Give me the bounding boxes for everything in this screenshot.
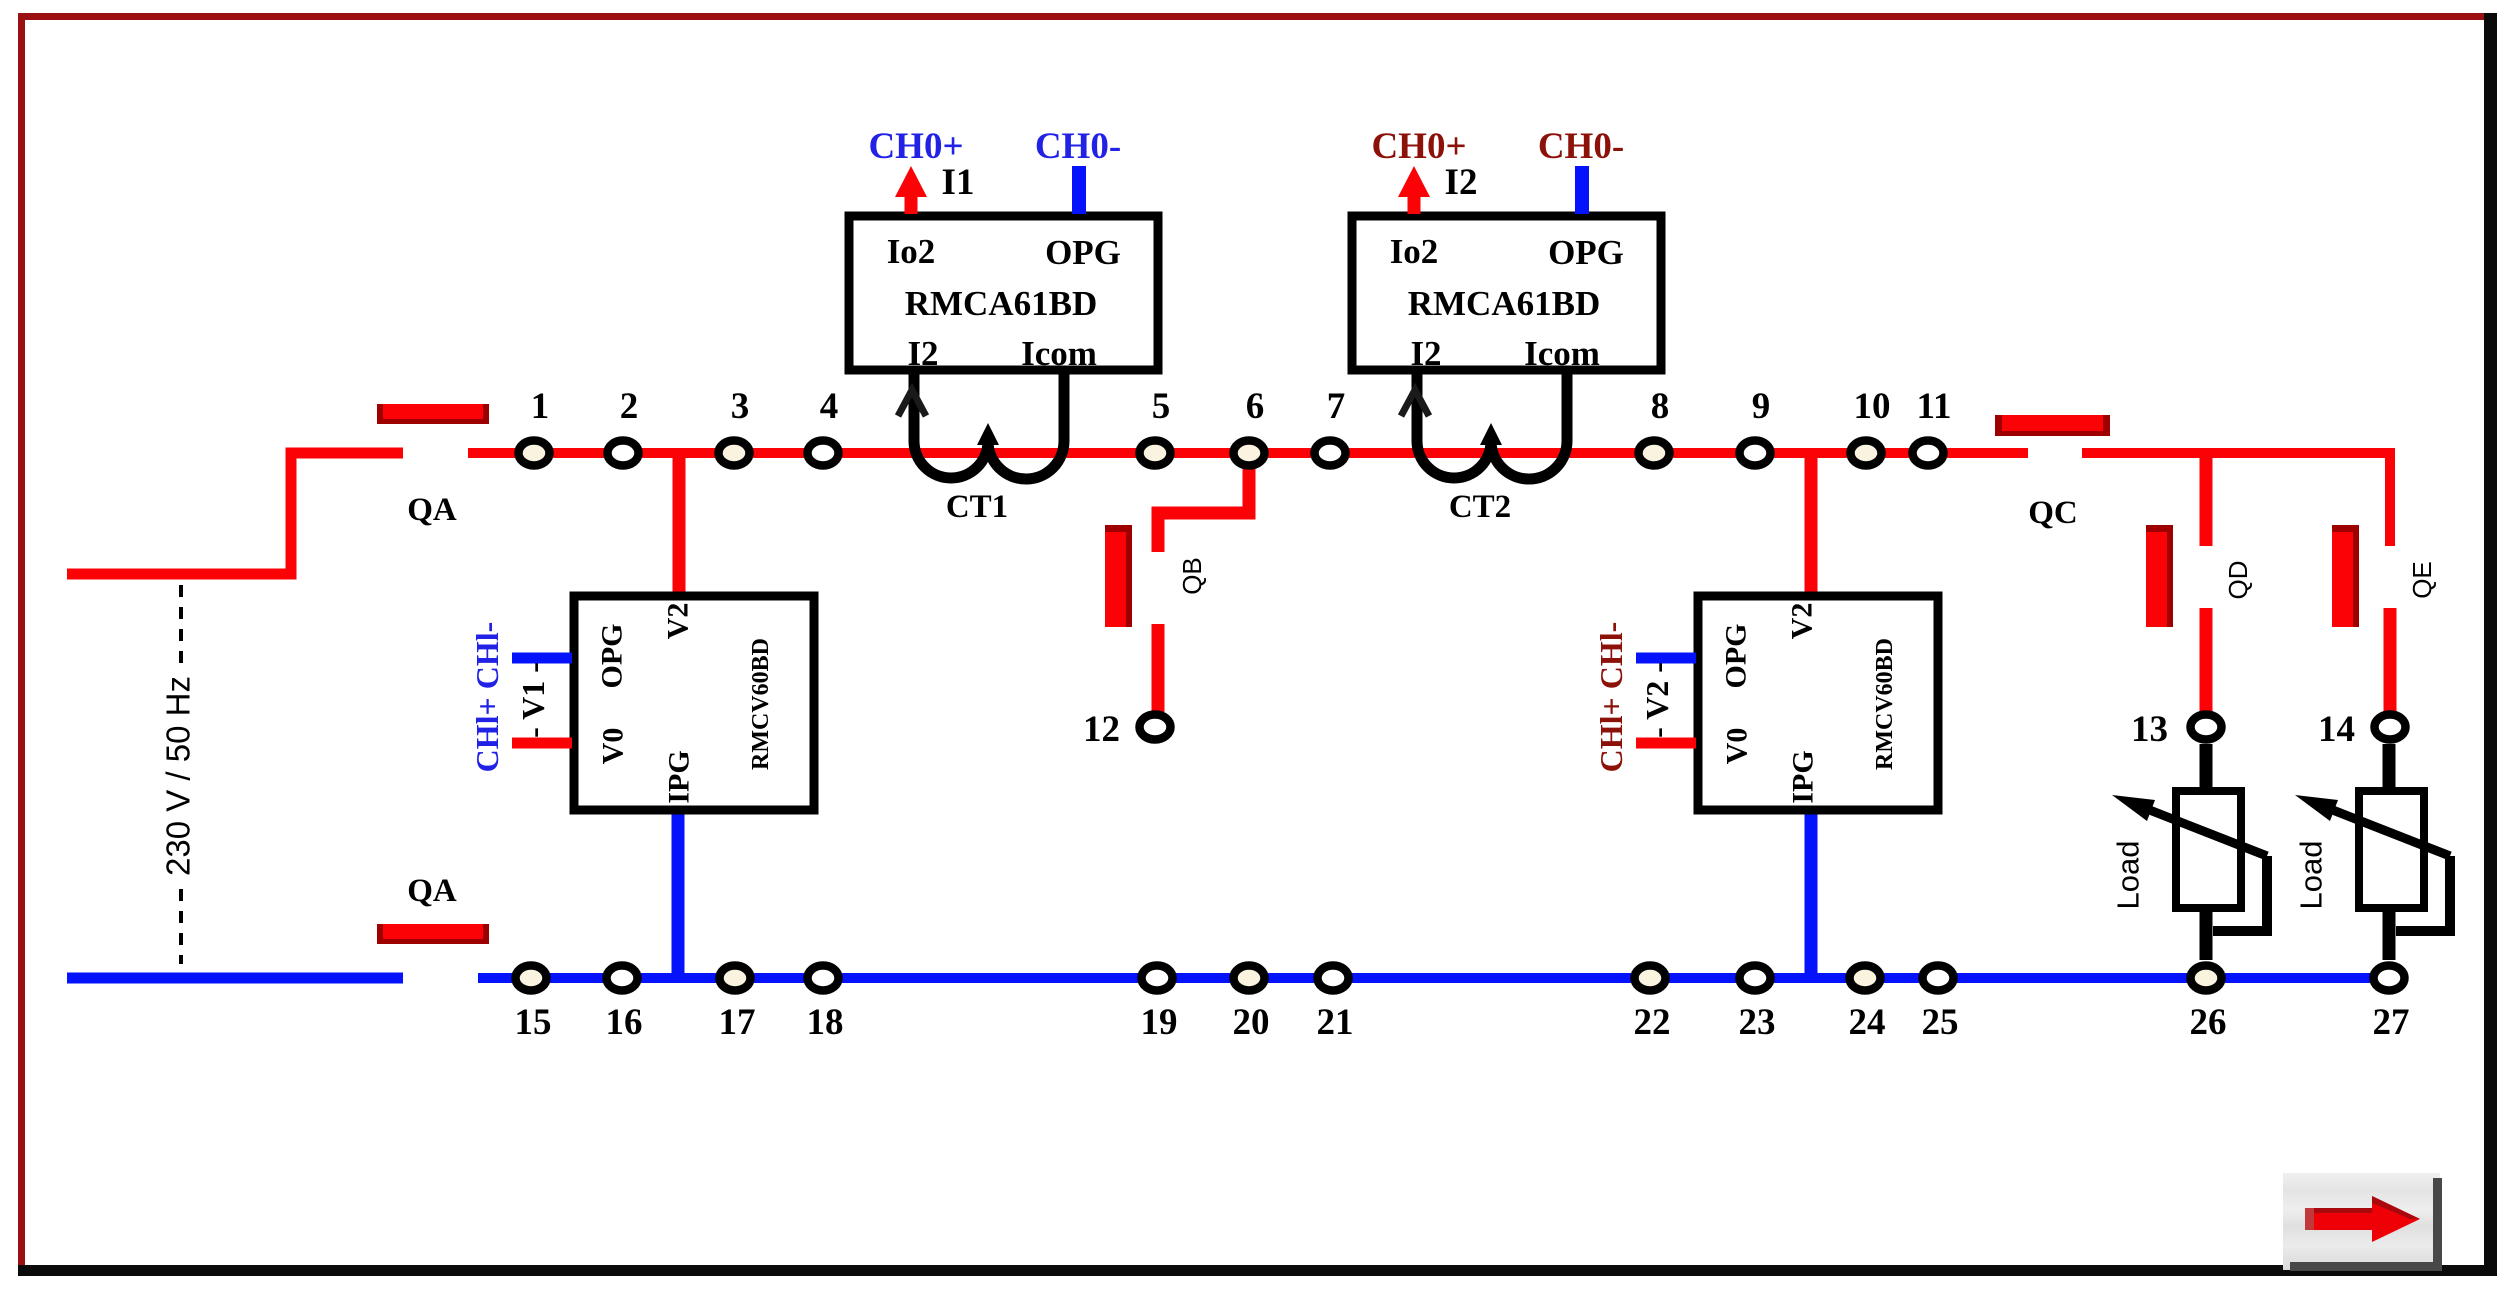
svg-text:Io2: Io2 (887, 232, 936, 271)
svg-text:QC: QC (2028, 495, 2078, 531)
label node 19 (1141, 1002, 1178, 1043)
wire QD to node13 (2200, 608, 2213, 712)
label QA lower (407, 873, 457, 909)
svg-text:14: 14 (2318, 709, 2355, 750)
svg-text:CT2: CT2 (1449, 489, 1511, 525)
node 15 (516, 966, 547, 991)
label RMCA61BD (1408, 284, 1600, 323)
wire branch node3 to U3 V2 pin (673, 453, 686, 592)
svg-text:5: 5 (1152, 386, 1171, 427)
node source dashed lead (179, 585, 183, 964)
wire red output arrow pin Io2 of CT2 (1398, 166, 1430, 214)
switch QD bar (2146, 525, 2173, 627)
svg-text:OPG: OPG (1045, 233, 1121, 272)
label CH0- of CT1 (1035, 126, 1121, 167)
label node 3 (731, 386, 750, 427)
svg-text:V0: V0 (1721, 728, 1754, 765)
svg-text:V2: V2 (662, 603, 695, 640)
svg-text:QD: QD (2223, 561, 2253, 600)
svg-text:CT1: CT1 (946, 489, 1008, 525)
label 230 V / 50 Hz (160, 676, 197, 876)
pin label Io2 (1390, 232, 1439, 271)
label CHI+ CHI- of U4 (1593, 622, 1629, 773)
wire red pin Vo of U3 (512, 738, 572, 749)
svg-text:I2: I2 (907, 334, 938, 373)
node 8 (1639, 441, 1670, 466)
pin label IPG of U4 (1787, 750, 1820, 803)
label V2 (1639, 662, 1675, 738)
svg-text:CHl+ CHl-: CHl+ CHl- (469, 622, 505, 773)
svg-text:3: 3 (731, 386, 750, 427)
border frame bottom (18, 1265, 2497, 1276)
node 3 (719, 441, 750, 466)
node 9 (1740, 441, 1771, 466)
label QE (2407, 561, 2437, 599)
svg-text:8: 8 (1651, 386, 1670, 427)
svg-text:11: 11 (1917, 386, 1952, 427)
node 12 (1140, 715, 1171, 740)
node 23 (1740, 966, 1771, 991)
label node 21 (1317, 1002, 1354, 1043)
switch QE bar (2332, 525, 2359, 627)
label node 4 (820, 386, 839, 427)
label CH0+ of CT2 (1371, 126, 1466, 167)
wire phase rail left segment (468, 448, 2028, 458)
svg-text:Icom: Icom (1524, 334, 1600, 373)
svg-text:RMCV60BD: RMCV60BD (1872, 638, 1898, 770)
svg-text:Io2: Io2 (1390, 232, 1439, 271)
label node 20 (1233, 1002, 1270, 1043)
svg-text:6: 6 (1246, 386, 1265, 427)
next button arrow (2305, 1196, 2420, 1242)
svg-text:21: 21 (1317, 1002, 1354, 1043)
svg-text:15: 15 (515, 1002, 552, 1043)
svg-text:CH0+: CH0+ (1371, 126, 1466, 167)
switch QA lower bar (377, 924, 489, 944)
pin label Icom (1021, 334, 1097, 373)
svg-text:I1: I1 (942, 162, 975, 203)
svg-text:RMCA61BD: RMCA61BD (905, 284, 1097, 323)
svg-text:18: 18 (807, 1002, 844, 1043)
node 18 (808, 966, 839, 991)
svg-text:24: 24 (1849, 1002, 1886, 1043)
label node 23 (1739, 1002, 1776, 1043)
node 4 (808, 441, 839, 466)
svg-text:QB: QB (1177, 557, 1207, 595)
load L2 top lead (2383, 744, 2396, 790)
pin label I2 (907, 334, 938, 373)
svg-text:IPG: IPG (1787, 750, 1820, 803)
border frame right (2484, 13, 2497, 1276)
node 20 (1234, 966, 1265, 991)
wire phase source feed (67, 453, 403, 574)
svg-text:CHl+ CHl-: CHl+ CHl- (1593, 622, 1629, 773)
label node 16 (606, 1002, 643, 1043)
label Load 1 (2111, 841, 2146, 910)
svg-text:22: 22 (1634, 1002, 1671, 1043)
current transformer CT2 coil (1417, 374, 1567, 479)
label node 13 (2131, 709, 2168, 750)
svg-text:23: 23 (1739, 1002, 1776, 1043)
svg-text:OPG: OPG (1720, 624, 1753, 689)
pin label I2 (1410, 334, 1441, 373)
variable arrow of Load 2 (2295, 795, 2450, 931)
svg-text:V2: V2 (1786, 603, 1819, 640)
svg-text:- V2 -: - V2 - (1639, 662, 1675, 738)
label I2 (1445, 162, 1478, 203)
node 10 (1851, 441, 1882, 466)
label QD (2223, 561, 2253, 600)
svg-text:7: 7 (1327, 386, 1346, 427)
node 21 (1318, 966, 1349, 991)
node 5 (1140, 441, 1171, 466)
load L2 bottom lead (2383, 908, 2396, 960)
svg-text:19: 19 (1141, 1002, 1178, 1043)
label QA upper (407, 492, 457, 528)
border frame top (18, 13, 2497, 20)
label CHI+ CHI- of U3 (469, 622, 505, 773)
svg-text:Load: Load (2294, 841, 2329, 910)
svg-text:CH0-: CH0- (1035, 126, 1121, 167)
label V1 (515, 662, 551, 738)
svg-text:QA: QA (407, 873, 457, 909)
wire blue pin OPG of U3 (512, 653, 572, 664)
label node 12 (1083, 709, 1120, 750)
wire branch to QD (2200, 453, 2213, 546)
svg-text:I2: I2 (1410, 334, 1441, 373)
svg-text:OPG: OPG (1548, 233, 1624, 272)
svg-text:IPG: IPG (663, 750, 696, 803)
op-amp module U2 RMCA61BD box (1352, 216, 1661, 370)
label node 2 (620, 386, 639, 427)
svg-text:Load: Load (2111, 841, 2146, 910)
node 16 (607, 966, 638, 991)
svg-text:20: 20 (1233, 1002, 1270, 1043)
label node 5 (1152, 386, 1171, 427)
switch QC bar (1995, 415, 2110, 436)
node 22 (1635, 966, 1666, 991)
wire red pin Vo of U4 (1636, 738, 1696, 749)
node 14 (2375, 715, 2406, 740)
label node 11 (1917, 386, 1952, 427)
wire neutral source feed (67, 973, 403, 984)
label node 26 (2190, 1002, 2227, 1043)
label CT1 (946, 489, 1008, 525)
pin label OPG of U4 (1720, 624, 1753, 689)
resistor Load 2 body (2359, 791, 2424, 908)
current transformer CT1 coil (914, 374, 1064, 479)
switch QB bar (1105, 525, 1132, 627)
voltage module U3 RMCV60BD box (574, 596, 814, 810)
label I1 (942, 162, 975, 203)
wire branch node6 to QB (1158, 453, 1249, 552)
svg-text:V0: V0 (597, 728, 630, 765)
svg-text:QA: QA (407, 492, 457, 528)
label CH0+ of CT1 (868, 126, 963, 167)
svg-text:9: 9 (1752, 386, 1771, 427)
node 27 (2374, 966, 2405, 991)
pin label V2 of U4 (1786, 603, 1819, 640)
svg-text:CH0-: CH0- (1538, 126, 1624, 167)
svg-text:10: 10 (1854, 386, 1891, 427)
wire phase rail right segment (2082, 453, 2390, 546)
next button (2283, 1173, 2442, 1271)
svg-text:- V1 -: - V1 - (515, 662, 551, 738)
label QC (2028, 495, 2078, 531)
variable arrow of Load 1 (2112, 795, 2267, 931)
label QB (1177, 557, 1207, 595)
label node 17 (719, 1002, 756, 1043)
svg-text:16: 16 (606, 1002, 643, 1043)
svg-text:RMCV60BD: RMCV60BD (748, 638, 774, 770)
svg-text:1: 1 (531, 386, 550, 427)
node 17 (720, 966, 751, 991)
label node 10 (1854, 386, 1891, 427)
label node 8 (1651, 386, 1670, 427)
label node 22 (1634, 1002, 1671, 1043)
node 13 (2191, 715, 2222, 740)
label node 15 (515, 1002, 552, 1043)
label node 18 (807, 1002, 844, 1043)
current direction arrow at CT2 (1401, 390, 1429, 416)
pin label Icom (1524, 334, 1600, 373)
label node 9 (1752, 386, 1771, 427)
wire blue pin OPG of CT2 (1575, 166, 1589, 214)
node 26 (2191, 966, 2222, 991)
svg-text:25: 25 (1922, 1002, 1959, 1043)
wire blue pin OPG of CT1 (1072, 166, 1086, 214)
svg-text:Icom: Icom (1021, 334, 1097, 373)
svg-text:12: 12 (1083, 709, 1120, 750)
label node 1 (531, 386, 550, 427)
svg-text:27: 27 (2373, 1002, 2410, 1043)
svg-text:4: 4 (820, 386, 839, 427)
svg-text:RMCA61BD: RMCA61BD (1408, 284, 1600, 323)
label node 25 (1922, 1002, 1959, 1043)
label node 14 (2318, 709, 2355, 750)
svg-text:13: 13 (2131, 709, 2168, 750)
resistor Load 1 body (2176, 791, 2241, 908)
pin label V2 of U3 (662, 603, 695, 640)
wire red output arrow pin Io2 of CT1 (895, 166, 927, 214)
pin label V0 of U3 (597, 728, 630, 765)
pin label OPG of U3 (596, 624, 629, 689)
node 7 (1315, 441, 1346, 466)
svg-text:OPG: OPG (596, 624, 629, 689)
border frame left (18, 13, 25, 1276)
op-amp module U1 RMCA61BD box (849, 216, 1158, 370)
node 25 (1923, 966, 1954, 991)
label RMCV60BD of U3 (748, 638, 774, 770)
label CH0- of CT2 (1538, 126, 1624, 167)
label Load 2 (2294, 841, 2329, 910)
wire QE to node14 (2384, 608, 2397, 712)
wire branch U4 IPG to rail (1805, 813, 1818, 978)
svg-text:17: 17 (719, 1002, 756, 1043)
pin label OPG (1548, 233, 1624, 272)
pin label V0 of U4 (1721, 728, 1754, 765)
wire QB to node12 (1152, 624, 1165, 712)
wire neutral rail (478, 973, 2390, 983)
label node 6 (1246, 386, 1265, 427)
node 2 (608, 441, 639, 466)
pin label OPG (1045, 233, 1121, 272)
current direction arrow at CT1 (898, 390, 926, 416)
pin label Io2 (887, 232, 936, 271)
wire blue pin OPG of U4 (1636, 653, 1696, 664)
svg-text:2: 2 (620, 386, 639, 427)
switch QA upper bar (377, 404, 489, 424)
label node 7 (1327, 386, 1346, 427)
pin label IPG of U3 (663, 750, 696, 803)
node 19 (1142, 966, 1173, 991)
load L1 top lead (2200, 744, 2213, 790)
label node 27 (2373, 1002, 2410, 1043)
svg-text:I2: I2 (1445, 162, 1478, 203)
svg-text:QE: QE (2407, 561, 2437, 599)
node 24 (1850, 966, 1881, 991)
load L1 bottom lead (2200, 908, 2213, 960)
label node 24 (1849, 1002, 1886, 1043)
svg-text:CH0+: CH0+ (868, 126, 963, 167)
node 6 (1234, 441, 1265, 466)
label RMCV60BD of U4 (1872, 638, 1898, 770)
svg-text:230 V / 50 Hz: 230 V / 50 Hz (160, 676, 197, 876)
voltage module U4 RMCV60BD box (1698, 596, 1938, 810)
node 11 (1913, 441, 1944, 466)
node 1 (519, 441, 550, 466)
label CT2 (1449, 489, 1511, 525)
wire branch U3 IPG to rail (672, 813, 685, 978)
label RMCA61BD (905, 284, 1097, 323)
svg-text:26: 26 (2190, 1002, 2227, 1043)
wire branch node9 to U4 V2 pin (1805, 453, 1818, 592)
